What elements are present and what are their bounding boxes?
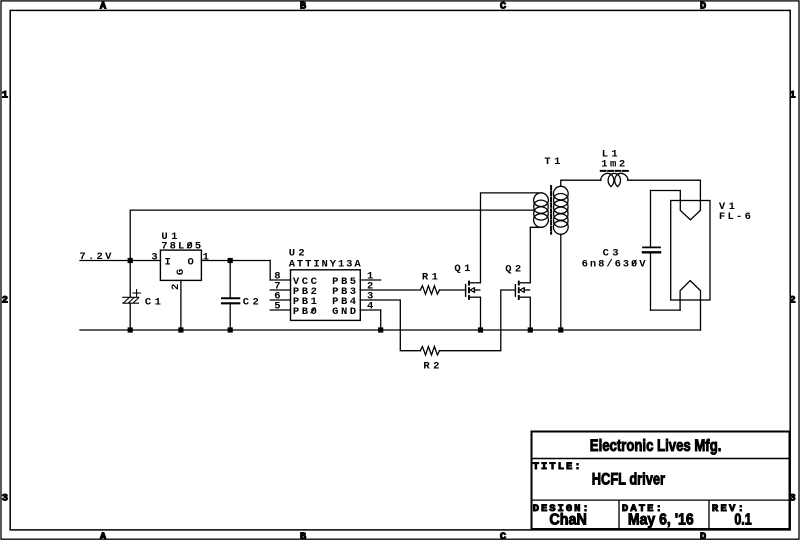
wire T1 secondary bottom to ground [560,234,562,330]
wire Q1 drain to T1 primary top [481,193,543,283]
svg-text:2: 2 [2,295,8,307]
transformer T1 core [550,186,552,234]
svg-text:HCFL driver: HCFL driver [592,470,665,489]
title block company name [549,437,751,529]
lamp V1 tube [671,201,710,301]
net 7.2V wire [80,260,160,262]
svg-text:3: 3 [2,493,8,505]
junction C2 gnd [228,327,233,332]
svg-text:G: G [175,269,187,275]
labels V1 FL-6 [719,201,751,223]
wire Q1 source to ground [480,297,482,330]
capacitor C1 [123,261,141,331]
junction at C2 [228,258,233,263]
svg-text:5: 5 [274,301,280,313]
capacitor C3 [643,191,660,311]
wire to T1 center tap [130,210,534,260]
svg-text:4: 4 [367,301,373,313]
wire U2 pin2 to R1 [360,289,420,291]
transistor Q2 N-MOSFET [515,281,530,300]
wire lamp top-left to C3 [651,190,681,192]
svg-text:I: I [165,257,171,269]
label Q1 [454,263,470,275]
junction Q2 source [528,327,533,332]
title block small labels [533,461,744,515]
wire VCC drop to U2 pin 8 [269,261,271,281]
wire R2 to Q2 gate [440,290,516,351]
inductor L1 core [601,170,628,172]
lamp V1 top electrode [680,180,700,220]
net label 7.2V [79,251,112,263]
wire U1 output to C2 and U2 [201,260,270,262]
transformer T1 primary winding [534,193,549,227]
svg-text:ATTINY13A: ATTINY13A [289,259,362,271]
svg-text:D: D [700,531,706,540]
wire U2 pin3 to R2 [360,300,420,351]
junction U1 gnd [178,327,183,332]
svg-text:D: D [700,1,706,13]
lamp V1 bottom electrode [680,281,700,330]
junction Q1 source [478,327,483,332]
label C1 [145,296,161,308]
svg-text:1: 1 [203,251,209,263]
svg-text:C: C [500,1,507,13]
U1 ground pin wire [180,280,182,330]
resistor R2 [420,347,439,355]
svg-text:C: C [500,531,507,540]
label Q2 [505,264,521,276]
slashed zero in 630V [632,260,636,265]
regulator U1 78L05 [160,250,201,280]
label R1 [422,271,438,283]
svg-text:2: 2 [170,284,182,290]
junction T1 secondary gnd [558,327,563,332]
U2 labels pin names and numbers [274,248,373,318]
labels L1 1m2 [601,149,625,171]
wire U2 pin4 to ground [380,310,382,330]
svg-text:7.2V: 7.2V [79,251,112,263]
svg-text:Electronic Lives Mfg.: Electronic Lives Mfg. [590,437,722,456]
svg-text:1m2: 1m2 [601,158,625,170]
inductor L1 [601,173,628,186]
svg-text:O: O [187,257,193,269]
svg-text:3: 3 [151,251,157,263]
wire Q2 source to ground [529,297,531,330]
title block [531,432,790,530]
slashed zero in PB0 [311,308,315,313]
svg-text:A: A [100,531,107,540]
svg-text:1: 1 [2,90,8,102]
resistor R1 [420,286,439,294]
labels C3 6n8/630V [582,247,647,270]
svg-text:ChaN: ChaN [549,511,586,529]
svg-text:B: B [300,1,307,13]
label R2 [423,361,439,373]
svg-text:2: 2 [789,295,795,307]
U1 labels and pins [151,231,209,290]
label T1 [544,156,560,168]
junction at 7.2V node [128,258,133,263]
wire R1 to Q1 gate [440,289,466,291]
svg-text:0.1: 0.1 [734,510,751,528]
wire Q2 drain to T1 primary bottom [530,227,542,282]
slashed zero in 78L05 [187,243,191,248]
svg-text:GND: GND [332,306,356,318]
IC U2 ATTINY13A [270,270,381,321]
svg-text:78L05: 78L05 [161,241,201,253]
wire T1 secondary top [561,180,601,186]
svg-text:B: B [300,531,307,540]
capacitor C2 [222,261,239,331]
transformer T1 secondary winding [553,186,568,234]
wire L1 to lamp [628,179,701,181]
junction C1 gnd [128,327,133,332]
svg-text:PB0: PB0 [293,306,317,318]
svg-text:A: A [100,1,107,13]
svg-text:May 6, '16: May 6, '16 [628,512,694,529]
wire lamp bottom-left to C3 [651,309,681,311]
label C2 [243,296,259,308]
transistor Q1 N-MOSFET [466,281,481,300]
svg-text:1: 1 [789,90,795,102]
junction pin4 gnd [378,327,383,332]
ground rail wire [80,329,701,331]
